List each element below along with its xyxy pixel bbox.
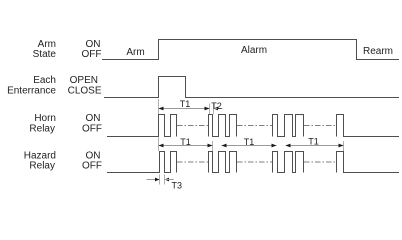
svg-text:OFF: OFF <box>82 161 102 172</box>
wire horn group3 <box>273 115 304 137</box>
signal Each Enterrance waveform <box>104 77 399 98</box>
svg-text:T1: T1 <box>308 137 319 147</box>
dimension T3 <box>147 175 183 191</box>
extension line at x164.5 T3 <box>164 175 166 185</box>
extension line at x209.5 <box>209 104 211 115</box>
svg-text:Each: Each <box>33 75 56 86</box>
tail line T3 left <box>147 179 160 181</box>
break line horn 1 <box>177 125 208 127</box>
break line hazard 2 <box>237 161 272 163</box>
wire hazard group3 <box>273 152 304 173</box>
row label Each Enterrance <box>7 75 56 97</box>
break line hazard 1 <box>177 161 208 163</box>
dimension line T1 lower3 <box>286 145 344 147</box>
extension line at x158.5 lower <box>158 138 160 152</box>
dimension line T1 lower2 <box>222 145 277 147</box>
arrowhead T3 right <box>165 178 170 182</box>
level label ON/OFF row1 <box>82 39 102 60</box>
svg-text:Relay: Relay <box>29 161 55 172</box>
dimension T1 lower 1 <box>159 137 213 152</box>
wire arm state <box>102 40 399 60</box>
svg-text:T1: T1 <box>244 137 255 147</box>
svg-text:OPEN: OPEN <box>70 75 98 86</box>
break line horn 3 <box>304 125 336 127</box>
arrowhead right T1 lower1 <box>208 144 213 148</box>
dimension T1 lower 3 <box>286 137 344 152</box>
svg-text:OFF: OFF <box>82 49 102 60</box>
signal Hazard Relay waveform <box>107 152 399 173</box>
extension line at x343.5 <box>343 141 345 151</box>
arrowhead left T1 upper <box>159 107 164 111</box>
wire hazard final pulse <box>337 152 400 173</box>
row label Hazard Relay <box>24 151 56 172</box>
arrowhead left T1 lower1 <box>159 144 164 148</box>
arrowhead left T1 lower2 <box>222 144 227 148</box>
wire hazard group1 <box>107 152 177 173</box>
svg-text:Horn: Horn <box>34 113 56 124</box>
svg-text:T1: T1 <box>180 99 191 109</box>
wire entrance pulse <box>104 77 399 98</box>
extension line at x159.5 T3 <box>159 175 161 185</box>
tail line T2 <box>214 108 223 110</box>
dimension T2 <box>211 101 222 114</box>
wire hazard group2 <box>209 152 237 173</box>
arrowhead right T1 lower3 <box>339 144 344 148</box>
dimension line T1 lower1 <box>159 145 213 147</box>
arrowhead T2 <box>214 107 219 111</box>
tail line T3 right <box>165 179 174 181</box>
arrowhead left T1 lower3 <box>286 144 291 148</box>
svg-text:CLOSE: CLOSE <box>68 86 102 97</box>
svg-text:Alarm: Alarm <box>241 45 267 56</box>
dimension T1 upper <box>159 99 210 114</box>
arrowhead right T1 upper <box>205 107 210 111</box>
extension line at x212.5 <box>212 141 214 152</box>
arrowhead right T1 lower2 <box>272 144 277 148</box>
level label OPEN/CLOSE row2 <box>68 75 102 97</box>
svg-text:T3: T3 <box>172 181 183 191</box>
svg-text:OFF: OFF <box>82 124 102 135</box>
svg-text:Arm: Arm <box>126 47 144 58</box>
break line horn 2 <box>237 125 272 127</box>
wire horn group1 <box>107 115 177 137</box>
level label ON/OFF row3 <box>82 113 102 135</box>
wire horn final pulse <box>337 115 400 137</box>
wire horn group2 <box>209 115 237 137</box>
signal Horn Relay waveform <box>107 115 399 137</box>
dimension T1 lower 2 <box>222 137 277 147</box>
svg-text:Enterrance: Enterrance <box>7 86 56 97</box>
dimension line T1 upper <box>159 108 210 110</box>
row label Horn Relay <box>29 113 56 135</box>
svg-text:Relay: Relay <box>29 124 55 135</box>
svg-text:T1: T1 <box>180 137 191 147</box>
arrowhead T3 left <box>155 178 160 182</box>
signal Arm State waveform <box>102 40 399 60</box>
row label Arm State <box>33 39 57 60</box>
svg-text:T2: T2 <box>211 101 222 111</box>
extension line at cycle start x158.5 <box>158 99 160 114</box>
svg-text:ON: ON <box>86 113 101 124</box>
break line hazard 3 <box>304 161 336 163</box>
level label ON/OFF row4 <box>82 151 102 172</box>
svg-text:Rearm: Rearm <box>363 46 393 57</box>
svg-text:State: State <box>33 49 57 60</box>
extension line at x213.5 <box>213 104 215 115</box>
